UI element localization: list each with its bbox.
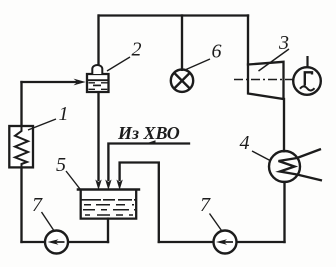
leader line 4 (252, 151, 271, 161)
wire: header down to turbine (247, 16, 249, 65)
svg-text:2: 2 (132, 39, 142, 61)
wire: condensate feed to tank (120, 163, 159, 243)
leader line 2 (107, 57, 130, 71)
arrowheads into tank (95, 180, 101, 191)
wire: XVO make-up water line (108, 144, 189, 181)
pump 7 right (214, 231, 237, 254)
arrowhead into drum 2 (74, 79, 86, 86)
wire: left riser through heater 1 (20, 82, 22, 242)
leader line 7 left (42, 212, 54, 230)
wire: top steam header (99, 14, 248, 16)
svg-text:4: 4 (240, 132, 250, 154)
svg-text:Из ХВО: Из ХВО (117, 123, 180, 143)
leader line 5 (66, 171, 80, 189)
wire: tank outlet (107, 219, 109, 242)
leader line 6 (186, 59, 210, 70)
leader line 1 (28, 119, 56, 130)
wire: branch to valve 6 (181, 16, 183, 70)
valve 6 (circle with X) (171, 70, 193, 92)
leader line 7 right (210, 214, 222, 231)
svg-text:5: 5 (56, 154, 66, 176)
wire: drum 2 to top header (97, 16, 99, 67)
pump 7 left (45, 231, 68, 254)
generator G (293, 56, 321, 95)
shaft axis (dash-dot) (234, 79, 294, 81)
boiler drum 2 (87, 65, 109, 92)
wire: feed line into drum 2 (22, 81, 77, 83)
svg-text:3: 3 (278, 32, 289, 54)
wire: bottom left pump line (22, 241, 109, 243)
svg-text:6: 6 (212, 41, 222, 63)
wire: turbine exhaust to condenser (283, 99, 285, 151)
turbine 3 (248, 62, 284, 99)
flow tick on XVO line (147, 140, 156, 143)
wire: drum 2 down to tank (97, 92, 99, 180)
deaerator tank 5 (77, 190, 141, 219)
leader line 3 (259, 49, 290, 71)
wire: condenser outlet down (283, 182, 285, 242)
economizer / heater 1 (9, 126, 33, 167)
wire: bottom right pump line (159, 241, 285, 243)
svg-text:7: 7 (32, 194, 43, 216)
condenser 4 (269, 149, 322, 182)
svg-text:1: 1 (59, 103, 69, 125)
svg-text:7: 7 (200, 194, 211, 216)
